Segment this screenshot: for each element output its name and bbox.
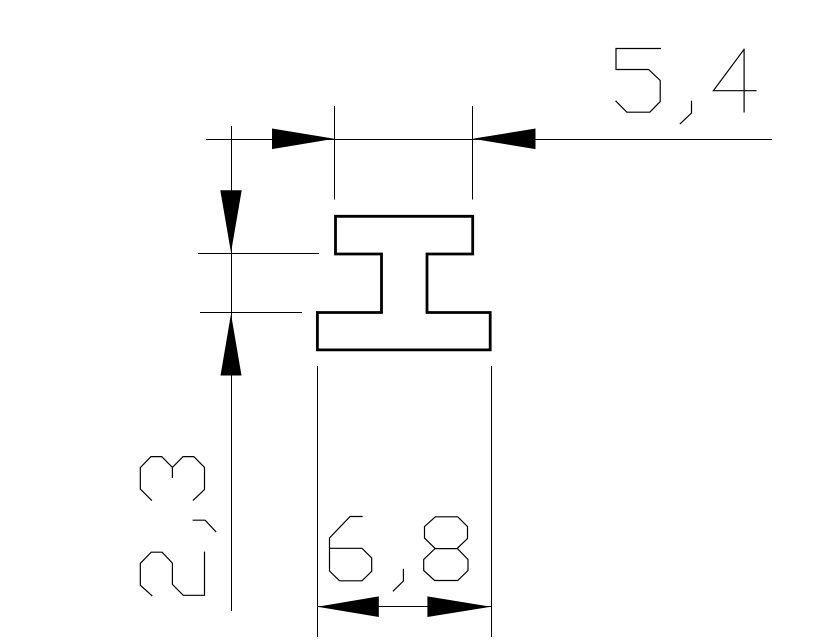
arrowhead down (points down) [220, 190, 241, 252]
dimension text 5,4 [616, 49, 756, 124]
dimension text 2,3 (rotated 90 deg) [140, 457, 215, 596]
dimension line (2,3) vertical [231, 126, 233, 611]
arrowhead left (points right) [272, 129, 334, 150]
dimension line (6,8) horizontal [318, 606, 491, 608]
extension line right of 5,4 [472, 106, 474, 200]
extension line upper of 2,3 [198, 253, 319, 255]
extension line right of 6,8 [491, 366, 493, 637]
arrowhead bottom-right (points right) [427, 596, 491, 617]
arrowhead right (points left) [473, 129, 536, 150]
arrowhead bottom-left (points left) [317, 596, 378, 617]
dimension text 6,8 [330, 517, 469, 591]
I-beam profile outline [317, 216, 490, 350]
extension line left of 6,8 [317, 366, 319, 637]
dimension line (5,4) horizontal [206, 139, 772, 141]
extension line lower of 2,3 [200, 312, 302, 314]
arrowhead up (points up) [221, 314, 242, 376]
extension line left of 5,4 [334, 106, 336, 200]
